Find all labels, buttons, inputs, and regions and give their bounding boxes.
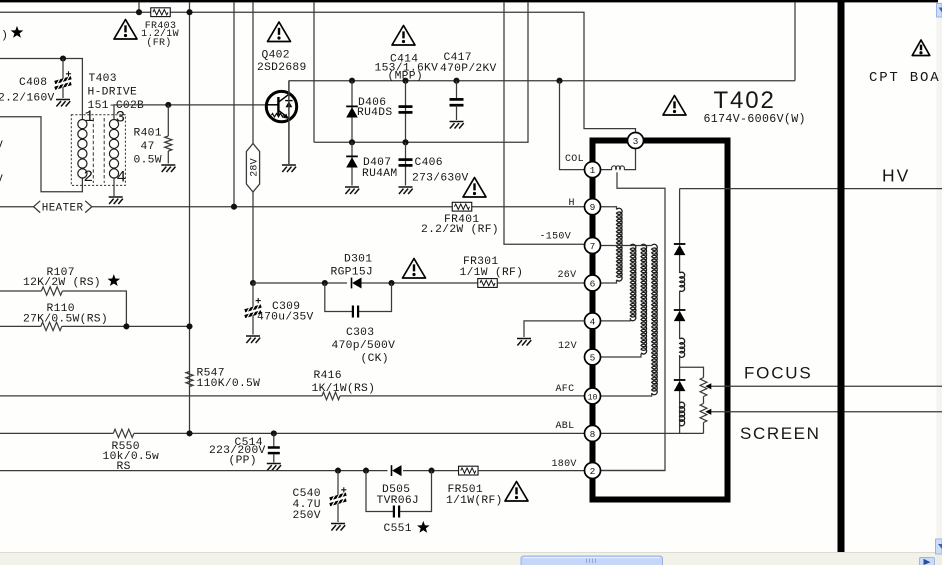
capacitor C309 [252,283,254,308]
svg-text:6174V-6006V(W): 6174V-6006V(W) [704,113,806,126]
node D301 right [388,280,394,286]
svg-text:1: 1 [85,108,95,126]
resistor FR501 [459,466,479,475]
vertical scrollbar down button [936,539,942,554]
wire vertical x314 (box left) [313,2,315,142]
svg-text:Q402: Q402 [262,50,290,62]
node R547 bottom junction [186,430,192,436]
svg-text:5: 5 [590,352,596,363]
capacitor C514 [273,433,275,446]
inductor pin1 primary [612,166,625,170]
wire COL to pin1 [560,81,585,170]
wire 26V line [253,282,585,284]
svg-text:T403: T403 [89,73,117,85]
diode HV1 [674,243,686,245]
svg-text:HV: HV [882,166,910,186]
ground C540 [331,524,345,531]
vertical scrollbar strip [937,2,942,552]
wire winding to pin4 [601,318,631,321]
svg-text:273/630V: 273/630V [412,172,469,184]
svg-text:4: 4 [117,169,127,187]
svg-text:28V: 28V [250,158,261,177]
svg-text:RU4AM: RU4AM [362,168,397,180]
wire T403 pin3 to Q402 base [114,105,266,120]
svg-text:AFC: AFC [556,384,575,395]
capacitor C408 [62,59,64,80]
svg-text:C408: C408 [19,77,47,89]
wire collector rail y81 [289,80,796,82]
svg-text:470u/35V: 470u/35V [257,312,314,324]
wire vertical x253 from top to 26V node [252,2,254,283]
wire C408 rail y58 [0,59,82,121]
resistor R416 [322,392,340,400]
node D505 right [428,468,434,474]
resistor R110 [0,325,41,327]
star C551 [417,521,430,533]
pin T402 3 [628,133,644,149]
node heater junction x234 [231,204,237,210]
node C414 top [402,78,408,84]
svg-text:26V: 26V [558,270,577,281]
wire ABL inner [601,432,704,434]
svg-text:RU4DS: RU4DS [357,107,392,119]
wire SCREEN line [710,411,942,413]
warning triangle near FR403 [114,20,137,40]
svg-text:9: 9 [590,202,596,213]
diode D407 [346,155,358,157]
svg-text:C406: C406 [415,157,443,169]
svg-text:2.2/160V: 2.2/160V [0,92,55,104]
wire T403 pin2 route [0,117,82,192]
warning triangle after FR501 [505,482,528,502]
diode D406 [346,105,358,107]
node 28V pill [246,144,259,193]
diode HV3 [674,379,686,381]
svg-text:10: 10 [588,393,598,402]
svg-text:TVR06J: TVR06J [377,495,419,507]
ground C406 [399,187,413,194]
ground C417 [450,122,464,129]
svg-text:RGP15J: RGP15J [331,267,373,279]
svg-text:7: 7 [590,241,596,252]
wire stub to FR403 left [138,2,140,12]
svg-text:2.2/2W (RF): 2.2/2W (RF) [421,224,499,236]
wire winding to pin6 [601,280,617,283]
inductor HV spring1 [680,272,685,291]
diode D301 [351,278,353,289]
wire FOCUS line [710,385,942,387]
ground T403 pin4 [109,197,123,204]
wire pin9 stub [601,207,617,210]
wire HV diode chain [679,189,681,434]
wire HV line [680,188,942,190]
pin T402 9 [585,199,601,215]
top border wire [0,0,938,2]
resistor screen pot [700,404,707,423]
wire pin7 header [601,245,652,247]
svg-text:470p/500V: 470p/500V [332,340,396,352]
svg-text:12K/2W (RS): 12K/2W (RS) [23,277,101,289]
ground D407 [345,187,359,194]
svg-text:4: 4 [590,316,596,327]
svg-text:47: 47 [141,141,155,153]
wire C303 loop [325,283,392,312]
transformer T403 dashed box [71,115,125,186]
svg-text:HEATER: HEATER [42,203,84,215]
svg-text:R416: R416 [314,370,342,382]
resistor focus pot [700,378,707,397]
wire D407 branch [351,142,353,185]
node R401 junction [165,102,171,108]
node D505 left [363,468,369,474]
wire C414 branch [405,81,407,143]
inductor HV spring2 [680,338,685,357]
wire heater line [0,206,585,208]
ground C514 [267,464,281,471]
scroll corner [936,555,942,565]
node FR403 left junction [136,9,142,15]
svg-text:3: 3 [116,109,126,127]
svg-text:3: 3 [633,136,639,147]
wire 180V line [0,470,585,472]
inductor T403 primary winding [78,120,87,129]
node C408 junction [60,55,66,61]
node R107/R110 junction [123,323,129,329]
wire primary to pin2 [601,172,666,470]
inductor winding 7-5 [641,244,647,354]
node C514 junction [271,430,277,436]
svg-text:2SD2689: 2SD2689 [257,62,307,74]
capacitor C417 [456,81,458,99]
resistor FR401 [452,202,472,211]
diode HV2 [674,309,686,311]
svg-text:1/1W(RF): 1/1W(RF) [446,495,503,507]
svg-text:(CK): (CK) [361,353,389,365]
resistor R547 zigzag [186,372,193,387]
capacitor C551 [393,506,395,518]
pin T402 5 [585,349,601,365]
ground pin4 [517,339,531,346]
pin T402 1 [585,162,601,178]
inductor winding 7-10 [652,244,658,395]
capacitor C414 [399,105,413,108]
transformer T403 core [93,118,104,183]
svg-text:CPT BOA: CPT BOA [869,70,940,86]
wire D406 branch [351,81,353,143]
transistor Q402 [266,91,296,121]
wire T403 pin4 to ground [113,178,115,196]
svg-text:FOCUS: FOCUS [744,364,813,383]
svg-text:180V: 180V [552,459,577,470]
wire box bottom y142 [314,2,528,142]
node 26V line left junction [250,280,256,286]
inductor winding 7-4 [630,244,636,321]
svg-text:2: 2 [590,466,596,477]
label HEATER with chevrons [34,201,41,213]
svg-text:250V: 250V [293,510,321,522]
node COL junction [556,78,562,84]
svg-text:12V: 12V [558,341,577,352]
wire CPT board separator [838,2,845,552]
wire winding to pin5 [601,354,642,357]
svg-text:1K/1W(RS): 1K/1W(RS) [312,383,376,395]
capacitor C406 [399,158,413,161]
warning triangle CPT [912,40,930,56]
node FR403 right junction [186,9,192,15]
wire vertical x234 from top to heater [233,2,235,207]
star R107 [108,274,121,286]
wire pin1 internal [601,149,636,170]
horizontal scrollbar thumb [521,556,663,565]
pin T402 4 [585,313,601,329]
svg-text:-150V: -150V [540,232,572,243]
svg-text:R401: R401 [134,128,162,140]
svg-text:H-DRIVE: H-DRIVE [88,87,138,99]
wire focus branch [680,367,704,377]
svg-text:110K/0.5W: 110K/0.5W [197,378,261,390]
capacitor C540 [337,471,339,496]
svg-text:8: 8 [590,429,596,440]
pin T402 7 [585,238,601,254]
svg-text:1/1W (RF): 1/1W (RF) [460,267,524,279]
scrollbar track bottom [0,553,942,565]
svg-text:s): s) [0,30,8,42]
resistor R107 [0,290,41,292]
pin T402 6 [585,275,601,291]
inductor HV spring3 [680,402,685,426]
node C406 top [402,139,408,145]
pin T402 8 [585,425,601,441]
resistor R550 [113,429,134,437]
wire Q402 collector-emitter [288,81,290,164]
ground C408 [56,100,70,107]
wire pot bottom [703,423,705,434]
svg-text:H: H [569,198,575,209]
wire pin2 inner [601,470,666,472]
node C417 top [453,78,459,84]
svg-text:COL: COL [565,154,584,165]
node R110/R547 junction [186,323,192,329]
transformer T402 outline [593,141,728,500]
svg-text:2: 2 [84,168,94,186]
wire vertical x504 to -150V [504,2,585,244]
node D406 bottom [349,139,355,145]
svg-text:470P/2KV: 470P/2KV [440,63,497,75]
wire ABL line [0,432,585,434]
svg-text:D301: D301 [344,254,372,266]
svg-text:C551: C551 [384,523,412,535]
warning triangle near FR301 [403,259,426,279]
svg-text:6: 6 [590,278,596,289]
resistor FR403 [151,8,171,17]
warning triangle above C414 [392,26,415,46]
svg-text:V: V [0,140,3,152]
inductor T403 secondary winding [109,120,118,129]
wire vertical x189 (FR403 right to ABL) [189,2,191,433]
ground Q402 emitter [282,165,296,172]
svg-text:T402: T402 [714,87,776,114]
wiper FOCUS arrow [705,383,711,389]
warning triangle above Q402 [268,22,291,42]
diode D505 [391,465,393,476]
svg-text:(FR): (FR) [146,37,171,49]
node D406 top [349,78,355,84]
svg-text:ABL: ABL [556,421,575,432]
resistor FR301 [478,279,498,288]
wiper SCREEN arrow [705,409,711,415]
warning triangle after C406 [463,178,486,198]
inductor winding 9-6 [617,208,623,281]
wire pin4 ground [524,321,585,337]
warning triangle near T402 [663,96,686,116]
wire vertical x795 top right [794,2,796,81]
ground C309 [246,336,260,343]
node C540 junction [335,468,341,474]
svg-text:27K/0.5W(RS): 27K/0.5W(RS) [23,314,108,326]
svg-text:10k/0.5w: 10k/0.5w [103,451,160,463]
wire C406 branch [405,142,407,185]
vertical scrollbar up button [937,4,942,18]
wire AFC line [0,395,585,397]
wire FR403 rail y12 [0,12,636,133]
svg-text:(PP): (PP) [229,455,257,467]
svg-text:0.5W: 0.5W [134,155,162,167]
wire between pots [703,397,705,404]
svg-text:SCREEN: SCREEN [740,424,820,443]
pin T402 2 [585,463,601,479]
resistor R401 [167,105,169,136]
ground R401 [161,165,175,172]
wire winding to pin10 [601,393,652,396]
node D301 left [322,280,328,286]
svg-text:V: V [0,174,3,186]
capacitor C303 [352,306,354,318]
wire C551 loop [366,471,432,512]
svg-text:C303: C303 [346,327,374,339]
horizontal scrollbar right button [920,558,935,565]
svg-text:1: 1 [590,165,596,176]
pin T402 10 [585,388,601,404]
